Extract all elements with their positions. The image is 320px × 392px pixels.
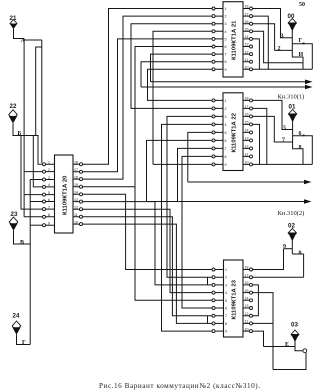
wire U21.17r2 drop (253, 16, 269, 69)
svg-text:Кн.310(2): Кн.310(2) (278, 210, 305, 217)
wire net A to U20 pin5 (24, 194, 42, 196)
svg-text:6: 6 (225, 307, 227, 311)
op IC U20 body (55, 155, 74, 233)
wire U21.17r to node V (253, 9, 293, 38)
svg-text:7: 7 (225, 53, 227, 57)
wire U22.18r to node 5 (253, 100, 293, 129)
svg-text:18: 18 (74, 161, 78, 165)
svg-text:А: А (21, 38, 26, 44)
arrowhead 2 (305, 85, 313, 90)
wire U21.16r to contact left (label 2) (253, 24, 293, 51)
wire source 00 down to node V junction (291, 29, 293, 44)
svg-text:2: 2 (225, 15, 227, 19)
wire U22.16r to contact left (label 7) (253, 116, 293, 142)
svg-text:5: 5 (225, 131, 227, 135)
svg-text:16: 16 (245, 20, 249, 24)
svg-text:12: 12 (245, 50, 249, 54)
wire net A to U20 pin8 (24, 216, 42, 218)
svg-text:11: 11 (245, 320, 249, 324)
arrow line out 3 (188, 181, 309, 183)
net A vertical bus to U20 pins 2,5,8 (23, 39, 25, 217)
svg-text:17: 17 (74, 168, 78, 172)
source X22 symbol (9, 110, 18, 124)
svg-text:18: 18 (245, 5, 249, 9)
U20 left pin stubs with bubbles (43, 163, 55, 227)
svg-text:1: 1 (225, 99, 227, 103)
svg-text:В: В (20, 240, 24, 246)
U22 right pin stubs with bubbles (243, 99, 253, 166)
svg-text:13: 13 (245, 43, 249, 47)
svg-text:02: 02 (288, 223, 295, 230)
svg-text:18: 18 (245, 97, 249, 101)
wire net V to U20 pin9 (30, 224, 42, 226)
svg-text:9: 9 (225, 163, 227, 167)
op IC U23 body (224, 260, 244, 337)
svg-text:4: 4 (225, 123, 227, 127)
wire U22.4 to U23.9 (162, 124, 213, 331)
U20 right pin numbers 18-10 (74, 161, 78, 225)
svg-text:03: 03 (291, 322, 298, 329)
wire U23.10r up to node E (253, 331, 264, 346)
svg-text:12: 12 (245, 312, 249, 316)
svg-text:22: 22 (10, 103, 17, 110)
svg-text:14: 14 (74, 191, 78, 195)
svg-text:6: 6 (225, 45, 227, 49)
U22 left pin numbers (225, 99, 227, 167)
op IC U22 body (223, 93, 243, 171)
svg-text:11: 11 (74, 213, 78, 217)
arrow line out 1 (151, 81, 311, 83)
svg-text:50: 50 (299, 2, 305, 8)
wire U22.9 to cross link (153, 163, 212, 165)
svg-text:17: 17 (245, 12, 249, 16)
svg-text:15: 15 (245, 121, 249, 125)
U20 right pin stubs with bubbles (73, 163, 83, 226)
wire U23.17r (253, 276, 304, 278)
source X24 symbol (12, 321, 21, 335)
svg-text:В: В (280, 34, 284, 40)
svg-text:4: 4 (225, 291, 227, 295)
wire U22.5 to output arrow 3 (188, 132, 212, 182)
wire U21.10r bottom run (253, 68, 313, 70)
wire U21.6 / U20.15 / U23.5 shared bus (135, 47, 212, 301)
svg-text:4: 4 (225, 30, 227, 34)
source X23 symbol (9, 217, 18, 231)
svg-text:10: 10 (74, 221, 78, 225)
svg-text:5: 5 (225, 299, 227, 303)
svg-text:2: 2 (48, 168, 50, 172)
svg-text:24: 24 (13, 313, 20, 320)
svg-text:8: 8 (299, 145, 302, 151)
svg-text:Рис.16 Вариант коммутации№2 (к: Рис.16 Вариант коммутации№2 (класс№310). (99, 382, 261, 390)
svg-text:8: 8 (225, 155, 227, 159)
svg-text:Кн.310(1): Кн.310(1) (278, 94, 305, 101)
source 02 symbol (288, 229, 297, 242)
svg-text:9: 9 (225, 68, 227, 72)
wire contact to U23.17r (303, 254, 305, 277)
contact K3 loop (273, 347, 306, 370)
node 9 junction wire (284, 248, 293, 250)
wire U21.4 long route to node 9 junction (153, 31, 212, 164)
arrowhead 4 (304, 199, 312, 204)
wire U23.18r up to node 9 (253, 249, 284, 270)
svg-text:9: 9 (225, 330, 227, 334)
svg-text:3: 3 (225, 22, 227, 26)
svg-text:1: 1 (48, 161, 50, 165)
contact K3 circle (303, 349, 307, 353)
svg-text:13: 13 (74, 198, 78, 202)
wire from source 22 down (net B stem) (13, 123, 43, 164)
wire U20.15 stub to bus (83, 186, 136, 188)
U21 right pin stubs with bubbles (243, 7, 253, 71)
wire U22.6 cross link (147, 140, 213, 201)
source 03 symbol (291, 330, 299, 342)
svg-text:3: 3 (225, 115, 227, 119)
U23 right pin numbers (245, 266, 249, 332)
svg-text:7: 7 (225, 314, 227, 318)
svg-text:16: 16 (74, 176, 78, 180)
svg-text:6: 6 (225, 139, 227, 143)
wire U22.8 to U23.6 (182, 156, 212, 308)
node E wire (264, 346, 296, 348)
svg-text:15: 15 (245, 289, 249, 293)
wire U22.15r drop (253, 124, 260, 164)
wire U22.10r bottom run (253, 163, 313, 165)
svg-text:14: 14 (245, 297, 249, 301)
U23 left pin numbers (225, 268, 227, 334)
wire U22.7 to output arrow 4 (178, 148, 213, 201)
svg-text:7: 7 (225, 147, 227, 151)
wire U21.8 to output arrow 2 (141, 62, 212, 87)
contact K1 frame (292, 44, 312, 70)
svg-text:18: 18 (245, 266, 249, 270)
svg-text:23: 23 (11, 211, 18, 218)
svg-text:3: 3 (48, 176, 50, 180)
svg-text:2: 2 (225, 276, 227, 280)
svg-text:К1109КТ1А 22: К1109КТ1А 22 (232, 112, 238, 152)
svg-text:9: 9 (48, 222, 50, 226)
svg-text:5: 5 (225, 37, 227, 41)
svg-text:4: 4 (48, 183, 50, 187)
wire U23.15r tie to U23.11r and down (253, 293, 274, 370)
contact top bar (292, 253, 303, 255)
svg-text:К1109КТ1А 21: К1109КТ1А 21 (232, 20, 238, 60)
wire U20.18 to U21.1 (83, 9, 213, 165)
wire U20.11 to U23.7 (83, 217, 213, 316)
wire from source 21 down and right (net A) (14, 29, 42, 40)
svg-text:2: 2 (225, 107, 227, 111)
wire U23.16r tie to U23.12r (253, 285, 259, 316)
net B drop to U20 pin7 (21, 136, 43, 210)
svg-text:16: 16 (245, 113, 249, 117)
U20 left pin numbers 1-9 (48, 161, 50, 226)
wire U21.15r drop (253, 31, 304, 63)
junction tick on K1 top (303, 43, 305, 45)
svg-text:17: 17 (245, 273, 249, 277)
svg-text:6: 6 (48, 198, 50, 202)
junction tick on K2 top (303, 135, 305, 137)
svg-text:15: 15 (245, 28, 249, 32)
svg-text:Е: Е (285, 342, 289, 348)
arrow line out 4 (147, 201, 310, 203)
wire U21.3 to U22.2 (131, 24, 212, 109)
jumper U23.2-U23.3 (207, 277, 209, 285)
svg-text:7: 7 (282, 138, 285, 144)
wire U22.3 to U23.2 (167, 116, 212, 277)
svg-text:1: 1 (225, 7, 227, 11)
svg-text:13: 13 (245, 137, 249, 141)
svg-text:10: 10 (245, 161, 249, 165)
U22 right pin numbers (245, 97, 249, 165)
svg-text:17: 17 (245, 105, 249, 109)
U22 left pin stubs with bubbles (212, 99, 223, 166)
wire net V to U20 pin3 (30, 179, 42, 181)
wire U21.14r drop (253, 39, 260, 69)
arrow line out 2 (141, 86, 310, 88)
wire U20.16 to U21.2 (83, 16, 213, 179)
svg-text:10: 10 (245, 327, 249, 331)
wire from source 24 down and right (net G) (17, 335, 31, 345)
U23 left pin stubs with bubbles (212, 268, 224, 333)
svg-text:14: 14 (245, 129, 249, 133)
svg-text:12: 12 (245, 145, 249, 149)
arrowhead 3 (304, 180, 312, 185)
U21 right pin numbers (245, 5, 249, 70)
wire U20.17 to U21.5 (83, 39, 213, 172)
svg-text:К1109КТ1А 23: К1109КТ1А 23 (232, 279, 238, 319)
wire U20.10 to U23.8 (83, 224, 213, 323)
arrowhead 1 (305, 80, 313, 85)
wire U20.12 to U23.4 (83, 209, 213, 292)
net B drop to U20 pin4 (33, 136, 42, 187)
svg-text:16: 16 (245, 281, 249, 285)
svg-text:8: 8 (225, 322, 227, 326)
svg-text:14: 14 (245, 35, 249, 39)
svg-text:5: 5 (283, 126, 286, 132)
U23 right pin stubs with bubbles (243, 268, 253, 333)
svg-text:2: 2 (278, 46, 281, 52)
svg-text:15: 15 (74, 183, 78, 187)
svg-text:8: 8 (225, 60, 227, 64)
wire U21.7 to output arrow 1 (151, 54, 213, 82)
source 00 symbol (288, 19, 297, 32)
wire U21.9 to U22.1 (148, 69, 213, 100)
wire net A to U20 pin2 (24, 171, 42, 173)
svg-text:Г: Г (299, 38, 303, 44)
wire net V to U20 pin6 (30, 201, 42, 203)
wire U22.17r drop (253, 108, 267, 164)
svg-text:И: И (299, 52, 304, 58)
svg-text:11: 11 (245, 153, 249, 157)
wire U20.14 to U23.1 (83, 194, 213, 269)
net V vertical bus to U20 pins 3,6,9 and down to source 24 (29, 180, 31, 345)
svg-text:К1109КТ1А 20: К1109КТ1А 20 (63, 175, 69, 215)
svg-text:1: 1 (225, 268, 227, 272)
contact K2 frame (293, 136, 313, 165)
net B bridge up-over (36, 40, 42, 163)
svg-text:7: 7 (48, 205, 50, 209)
svg-text:00: 00 (288, 13, 295, 20)
U21 left pin stubs with bubbles (212, 7, 223, 71)
wire U20.13 to U23.3 (83, 202, 213, 285)
wire source 03 down to node E (294, 341, 296, 347)
wire source 01 down to node 5 junction (292, 120, 294, 136)
jumper U23.7-U23.8 (207, 316, 209, 324)
svg-text:3: 3 (225, 283, 227, 287)
svg-text:5: 5 (48, 191, 50, 195)
source X21 symbol (diamond + filled arrow) (10, 20, 17, 30)
svg-text:11: 11 (245, 58, 249, 62)
svg-text:8: 8 (48, 213, 50, 217)
wire source 02 down through node 9 to contact top (291, 239, 293, 254)
U21 left pin numbers (225, 7, 227, 72)
op IC U21 body (223, 2, 243, 77)
svg-text:10: 10 (245, 66, 249, 70)
wire from source 23 down and right (net V) (14, 231, 31, 245)
svg-text:Г: Г (22, 340, 26, 346)
svg-text:13: 13 (245, 304, 249, 308)
svg-text:12: 12 (74, 206, 78, 210)
source 01 symbol (288, 110, 297, 123)
